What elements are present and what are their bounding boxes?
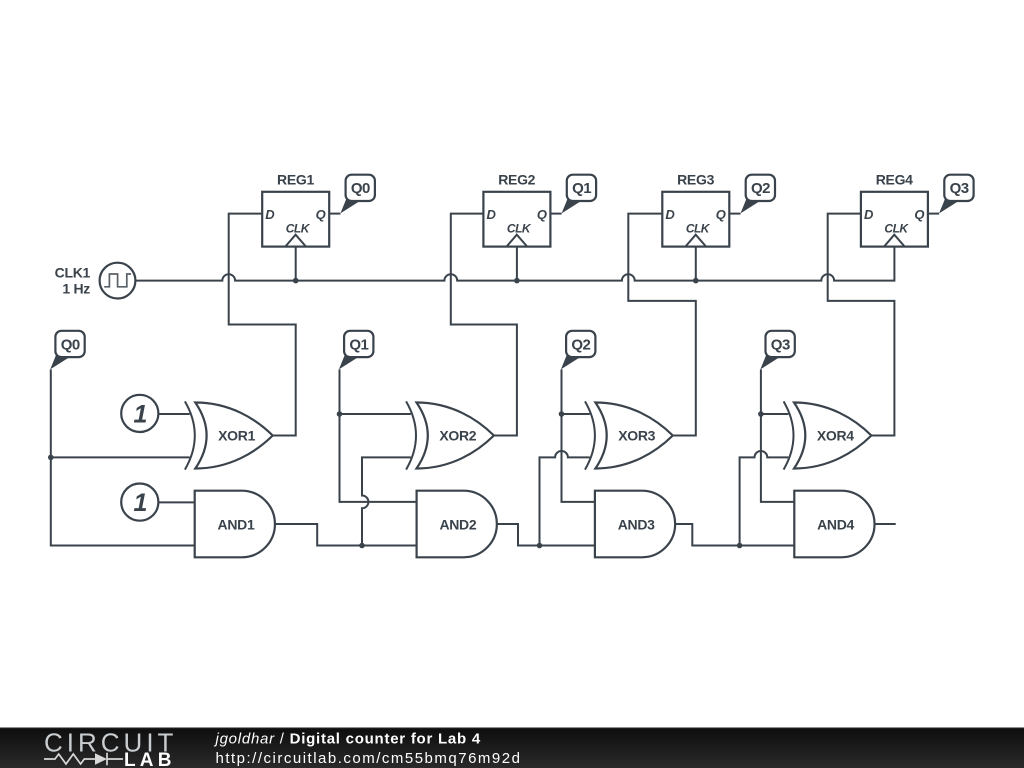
- wire carry2 up-branch to XOR3 lower input (hop): [540, 451, 590, 545]
- node carry junction 1: [359, 543, 365, 549]
- wire REG3 Q output: [729, 213, 740, 215]
- wire REG2 Q output: [550, 213, 561, 215]
- svg-text:XOR3: XOR3: [618, 428, 655, 444]
- svg-text:REG2: REG2: [498, 171, 535, 187]
- svg-text:CLK: CLK: [286, 222, 311, 236]
- xor gate XOR2: [406, 401, 494, 469]
- node Q1 net junction: [337, 411, 343, 417]
- svg-text:REG1: REG1: [277, 171, 314, 187]
- constant 1 source for AND1: [121, 484, 158, 521]
- xor gate XOR1: [185, 401, 273, 469]
- wire Q1 net branch to XOR2 upper input: [340, 413, 411, 415]
- svg-text:Q0: Q0: [61, 336, 80, 353]
- wire Q2 net vertical to AND3 upper input: [562, 369, 595, 502]
- and gate AND1: [195, 491, 275, 558]
- svg-text:REG3: REG3: [677, 171, 714, 187]
- wire AND4 output stub: [875, 523, 896, 525]
- svg-text:Q: Q: [316, 207, 326, 222]
- svg-text:CLK: CLK: [507, 222, 532, 236]
- svg-text:1: 1: [134, 401, 148, 429]
- wire AND1 output carry to AND2 lower input: [275, 524, 417, 546]
- svg-text:D: D: [864, 207, 874, 222]
- svg-text:AND4: AND4: [817, 517, 854, 533]
- wire XOR3 output to REG3 D feedback: [628, 214, 696, 436]
- constant 1 source for XOR1: [121, 395, 158, 432]
- xor gate XOR4: [784, 401, 872, 469]
- node clock junction at REG3: [693, 278, 699, 284]
- wire Q2 net branch to XOR3 upper input: [562, 413, 590, 415]
- svg-text:D: D: [665, 207, 675, 222]
- output flag Q1 at REG2: [562, 175, 597, 214]
- wire XOR4 output to REG4 D feedback: [828, 214, 895, 436]
- svg-text:Q1: Q1: [572, 180, 591, 197]
- svg-text:Q2: Q2: [571, 336, 590, 353]
- wire REG2 CLK stub: [516, 247, 518, 281]
- wire XOR1 output to REG1 D feedback: [229, 214, 296, 436]
- svg-text:Q3: Q3: [771, 336, 790, 353]
- wire REG3 CLK stub: [695, 247, 697, 281]
- svg-text:CLK1: CLK1: [55, 265, 91, 281]
- net flag Q1 at XOR2 input: [339, 331, 374, 370]
- wire AND3 output carry to AND4 lower input: [675, 524, 794, 546]
- node clock junction at REG2: [514, 278, 520, 284]
- svg-text:XOR4: XOR4: [817, 428, 854, 444]
- node carry junction 3: [737, 543, 743, 549]
- node Q3 net junction: [758, 411, 764, 417]
- wire AND2 output carry to AND3 lower input: [497, 524, 595, 546]
- wire carry3 up-branch to XOR4 lower input (hop): [740, 451, 789, 546]
- svg-text:Q3: Q3: [950, 180, 969, 197]
- svg-text:Q: Q: [537, 207, 547, 222]
- wire REG4 Q output: [928, 213, 939, 215]
- and gate AND2: [417, 491, 497, 558]
- svg-text:CLK: CLK: [686, 222, 711, 236]
- svg-text:LAB: LAB: [124, 750, 176, 768]
- svg-text:REG4: REG4: [876, 171, 913, 187]
- wire XOR2 output to REG2 D feedback: [451, 214, 517, 436]
- svg-text:D: D: [487, 207, 497, 222]
- CircuitLab logo resistor and diode glyph: [44, 753, 123, 765]
- wire REG1 CLK stub: [295, 247, 297, 281]
- flip-flop REG1: [262, 171, 329, 246]
- and gate AND3: [595, 491, 675, 558]
- wire constant1 to XOR1 upper input: [158, 413, 189, 415]
- svg-text:AND2: AND2: [439, 517, 476, 533]
- svg-text:jgoldhar / Digital counter for: jgoldhar / Digital counter for Lab 4: [214, 731, 481, 748]
- svg-text:1 Hz: 1 Hz: [62, 281, 90, 297]
- svg-text:AND3: AND3: [618, 517, 655, 533]
- flip-flop REG2: [483, 171, 550, 246]
- svg-text:CLK: CLK: [884, 222, 909, 236]
- output flag Q0 at REG1: [340, 175, 375, 214]
- node Q0 net junction: [48, 455, 54, 461]
- net flag Q2 at XOR3 input: [561, 331, 595, 370]
- svg-text:Q: Q: [914, 207, 924, 222]
- net flag Q0 at XOR1 input: [50, 331, 84, 370]
- node carry junction 2: [537, 543, 543, 549]
- svg-text:Q2: Q2: [751, 180, 770, 197]
- node Q2 net junction: [559, 411, 565, 417]
- wire Q1 net vertical to AND2 upper input: [340, 369, 417, 502]
- footer bar: [0, 727, 1024, 768]
- flip-flop REG4: [861, 171, 928, 246]
- output flag Q3 at REG4: [939, 175, 974, 214]
- clock source CLK1: [55, 263, 136, 299]
- wire clock bus from CLK1 to REG4 CLK with hops: [135, 247, 894, 281]
- output flag Q2 at REG3: [741, 175, 776, 214]
- svg-text:XOR2: XOR2: [439, 428, 476, 444]
- svg-text:Q0: Q0: [351, 180, 370, 197]
- svg-text:AND1: AND1: [218, 517, 255, 533]
- svg-text:Q1: Q1: [349, 336, 368, 353]
- wire carry1 up-branch to XOR2 lower input (hop): [362, 457, 411, 545]
- svg-text:XOR1: XOR1: [218, 428, 255, 444]
- svg-text:http://circuitlab.com/cm55bmq7: http://circuitlab.com/cm55bmq76m92d: [216, 750, 522, 767]
- svg-text:Q: Q: [716, 207, 726, 222]
- svg-text:D: D: [265, 207, 275, 222]
- wire Q3 net branch to XOR4 upper input: [761, 413, 789, 415]
- wire constant1 to AND1 upper input: [158, 501, 194, 503]
- wire Q3 net vertical to AND4 upper input: [761, 369, 794, 502]
- xor gate XOR3: [585, 401, 673, 469]
- svg-text:1: 1: [134, 489, 148, 517]
- wire REG1 Q output: [329, 213, 340, 215]
- net flag Q3 at XOR4 input: [760, 331, 795, 370]
- and gate AND4: [794, 491, 874, 558]
- flip-flop REG3: [662, 171, 729, 246]
- node clock junction at REG1: [293, 278, 299, 284]
- wire Q0 net vertical to AND1 lower input: [51, 369, 195, 545]
- wire Q0 net branch to XOR1 lower input: [51, 456, 190, 458]
